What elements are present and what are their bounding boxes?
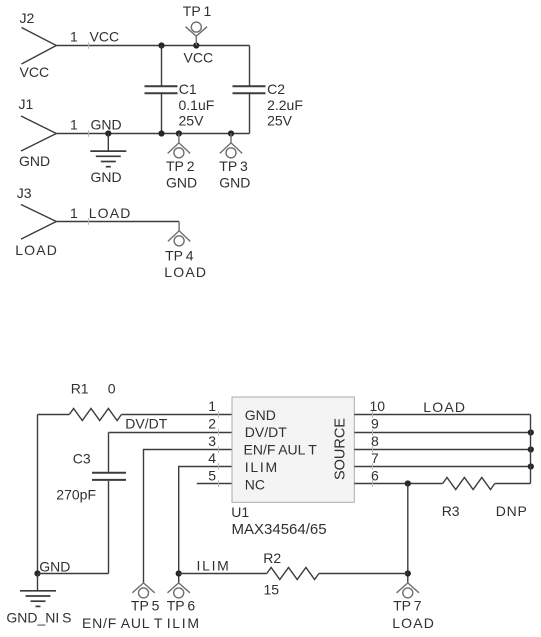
pin tick U1 pin 4 <box>218 463 220 469</box>
node junction pin7-bus <box>528 463 534 469</box>
connector J2 <box>22 28 57 65</box>
connector J3 <box>21 205 56 240</box>
svg-text:GND_NI S: GND_NI S <box>6 609 71 625</box>
wire R1 to U1 pin 1 <box>121 414 232 416</box>
svg-text:GND: GND <box>245 407 276 423</box>
svg-text:4: 4 <box>208 450 216 466</box>
svg-text:GND: GND <box>91 169 122 185</box>
svg-text:TP 6: TP 6 <box>167 597 196 613</box>
test point TP6 <box>168 583 190 598</box>
test point TP2 <box>168 134 190 158</box>
wire C3 to U1 pin 2 <box>109 432 233 434</box>
node junction GND bottom <box>34 570 40 576</box>
svg-text:25V: 25V <box>267 113 293 129</box>
svg-text:10: 10 <box>370 398 386 414</box>
resistor R1 <box>69 409 121 421</box>
svg-text:GND: GND <box>219 174 250 190</box>
pin tick J2 pin 1 <box>88 42 90 48</box>
test point TP7 <box>397 583 419 598</box>
svg-text:GND: GND <box>19 153 50 169</box>
pin tick J3 pin 1 <box>88 218 90 224</box>
svg-text:ILIM: ILIM <box>167 615 201 631</box>
svg-text:0: 0 <box>108 381 116 397</box>
wire R3 to right bus <box>495 483 531 485</box>
svg-text:3: 3 <box>208 433 216 449</box>
pin tick U1 pin 1 <box>218 411 220 417</box>
svg-text:9: 9 <box>371 415 379 431</box>
svg-text:C1: C1 <box>179 81 197 97</box>
svg-text:R2: R2 <box>263 550 281 566</box>
svg-text:6: 6 <box>371 468 379 484</box>
connector J1 <box>21 116 56 151</box>
test point TP4 <box>168 222 190 246</box>
test point TP1 <box>186 22 208 45</box>
svg-text:LOAD: LOAD <box>164 264 207 280</box>
node junction C1-GND <box>158 130 164 136</box>
svg-text:TP 1: TP 1 <box>183 3 212 19</box>
svg-text:TP 2: TP 2 <box>166 158 195 174</box>
wire U1 pin 10 to right bus <box>354 414 530 416</box>
wire GND top <box>56 133 249 135</box>
pin tick U1 pin 2 <box>218 429 220 435</box>
svg-text:270pF: 270pF <box>56 487 96 503</box>
wire ILIM left segment <box>179 573 267 575</box>
svg-text:J1: J1 <box>19 96 34 112</box>
svg-text:EN/F AUL T: EN/F AUL T <box>244 442 318 458</box>
wire ILIM right segment <box>319 573 408 575</box>
svg-text:DV/DT: DV/DT <box>245 424 287 440</box>
svg-text:LOAD: LOAD <box>89 205 132 221</box>
svg-text:DNP: DNP <box>496 503 528 519</box>
svg-text:5: 5 <box>208 468 216 484</box>
svg-text:VCC: VCC <box>184 49 214 65</box>
svg-text:2.2uF: 2.2uF <box>267 97 303 113</box>
svg-text:7: 7 <box>371 450 379 466</box>
svg-text:1: 1 <box>70 29 78 45</box>
wire U1 pin 9 to right bus <box>354 432 530 434</box>
svg-text:VCC: VCC <box>20 64 50 80</box>
wire U1 pin 5 stub (NC) <box>197 483 232 485</box>
ground symbol (top) <box>90 134 126 167</box>
node junction pin9-bus <box>528 429 534 435</box>
svg-text:25V: 25V <box>179 113 205 129</box>
wire pin6 junction down to TP7 <box>407 484 409 583</box>
svg-text:MAX34564/65: MAX34564/65 <box>232 521 327 538</box>
pin tick U1 pin 10 <box>372 411 374 417</box>
svg-text:LOAD: LOAD <box>15 242 58 258</box>
wire R1 left <box>38 414 70 416</box>
wire U1 pin 6 to R3 <box>354 483 442 485</box>
svg-text:U1: U1 <box>231 504 249 520</box>
test point TP3 <box>220 134 242 158</box>
svg-text:R3: R3 <box>442 503 460 519</box>
wire VCC top <box>56 45 249 47</box>
svg-text:TP 5: TP 5 <box>131 597 160 613</box>
svg-text:C3: C3 <box>73 450 91 466</box>
node junction TP6-ILIM <box>176 570 182 576</box>
svg-text:1: 1 <box>208 398 216 414</box>
ground symbol (bottom) <box>20 574 56 607</box>
resistor R2 <box>267 568 319 580</box>
wire U1 pin 4 to TP6 <box>179 467 232 583</box>
svg-text:ILIM: ILIM <box>245 459 279 475</box>
pin tick U1 pin 7 <box>372 463 374 469</box>
svg-text:15: 15 <box>264 582 280 598</box>
svg-text:DV/DT: DV/DT <box>125 416 167 432</box>
svg-text:NC: NC <box>245 476 265 492</box>
svg-text:GND: GND <box>166 174 197 190</box>
wire LOAD top <box>56 221 179 223</box>
svg-text:2: 2 <box>208 415 216 431</box>
svg-text:TP 7: TP 7 <box>393 598 422 614</box>
resistor R3 <box>443 478 495 490</box>
node junction TP3-GND <box>228 130 234 136</box>
svg-text:8: 8 <box>371 433 379 449</box>
wire U1 pin 8 to right bus <box>354 449 530 451</box>
pin tick U1 pin 8 <box>372 446 374 452</box>
svg-text:TP 3: TP 3 <box>219 158 248 174</box>
wire GND bottom horizontal to C3 <box>38 573 109 575</box>
svg-text:LOAD: LOAD <box>423 399 466 415</box>
pin tick U1 pin 3 <box>218 446 220 452</box>
svg-text:ILIM: ILIM <box>197 558 231 574</box>
capacitor C2 <box>233 46 266 134</box>
wire U1 pin 7 to right bus <box>354 466 530 468</box>
svg-text:1: 1 <box>70 116 78 132</box>
svg-text:VCC: VCC <box>90 29 120 45</box>
svg-text:C2: C2 <box>267 81 285 97</box>
svg-text:GND: GND <box>91 116 122 132</box>
svg-text:GND: GND <box>39 558 70 574</box>
node junction TP2-GND <box>176 130 182 136</box>
capacitor C3 <box>92 433 126 574</box>
wire U1 pin 3 to TP5 <box>144 450 233 583</box>
svg-text:1: 1 <box>70 205 78 221</box>
svg-text:SOURCE: SOURCE <box>333 418 349 480</box>
svg-text:J2: J2 <box>20 10 35 26</box>
svg-text:EN/F AUL T: EN/F AUL T <box>82 615 163 631</box>
node junction ground-GND <box>105 130 111 136</box>
pin tick J1 pin 1 <box>88 130 90 136</box>
node junction TP7-ILIM <box>405 570 411 576</box>
svg-text:LOAD: LOAD <box>392 615 435 631</box>
pin tick U1 pin 5 <box>218 480 220 486</box>
svg-text:J3: J3 <box>17 185 32 201</box>
svg-text:TP 4: TP 4 <box>165 247 194 263</box>
node junction pin6-TP7 <box>405 480 411 486</box>
node junction TP1-VCC <box>193 42 199 48</box>
node junction pin8-bus <box>528 446 534 452</box>
pin tick U1 pin 6 <box>372 480 374 486</box>
pin tick U1 pin 9 <box>372 429 374 435</box>
svg-text:R1: R1 <box>71 381 89 397</box>
capacitor C1 <box>145 46 178 134</box>
node junction C1-VCC <box>158 42 164 48</box>
op-amp U1 body <box>232 397 354 502</box>
wire left vertical (R1 to GND) <box>37 415 39 574</box>
wire right bus vertical <box>530 415 532 484</box>
svg-text:0.1uF: 0.1uF <box>179 97 215 113</box>
test point TP5 <box>132 583 154 598</box>
